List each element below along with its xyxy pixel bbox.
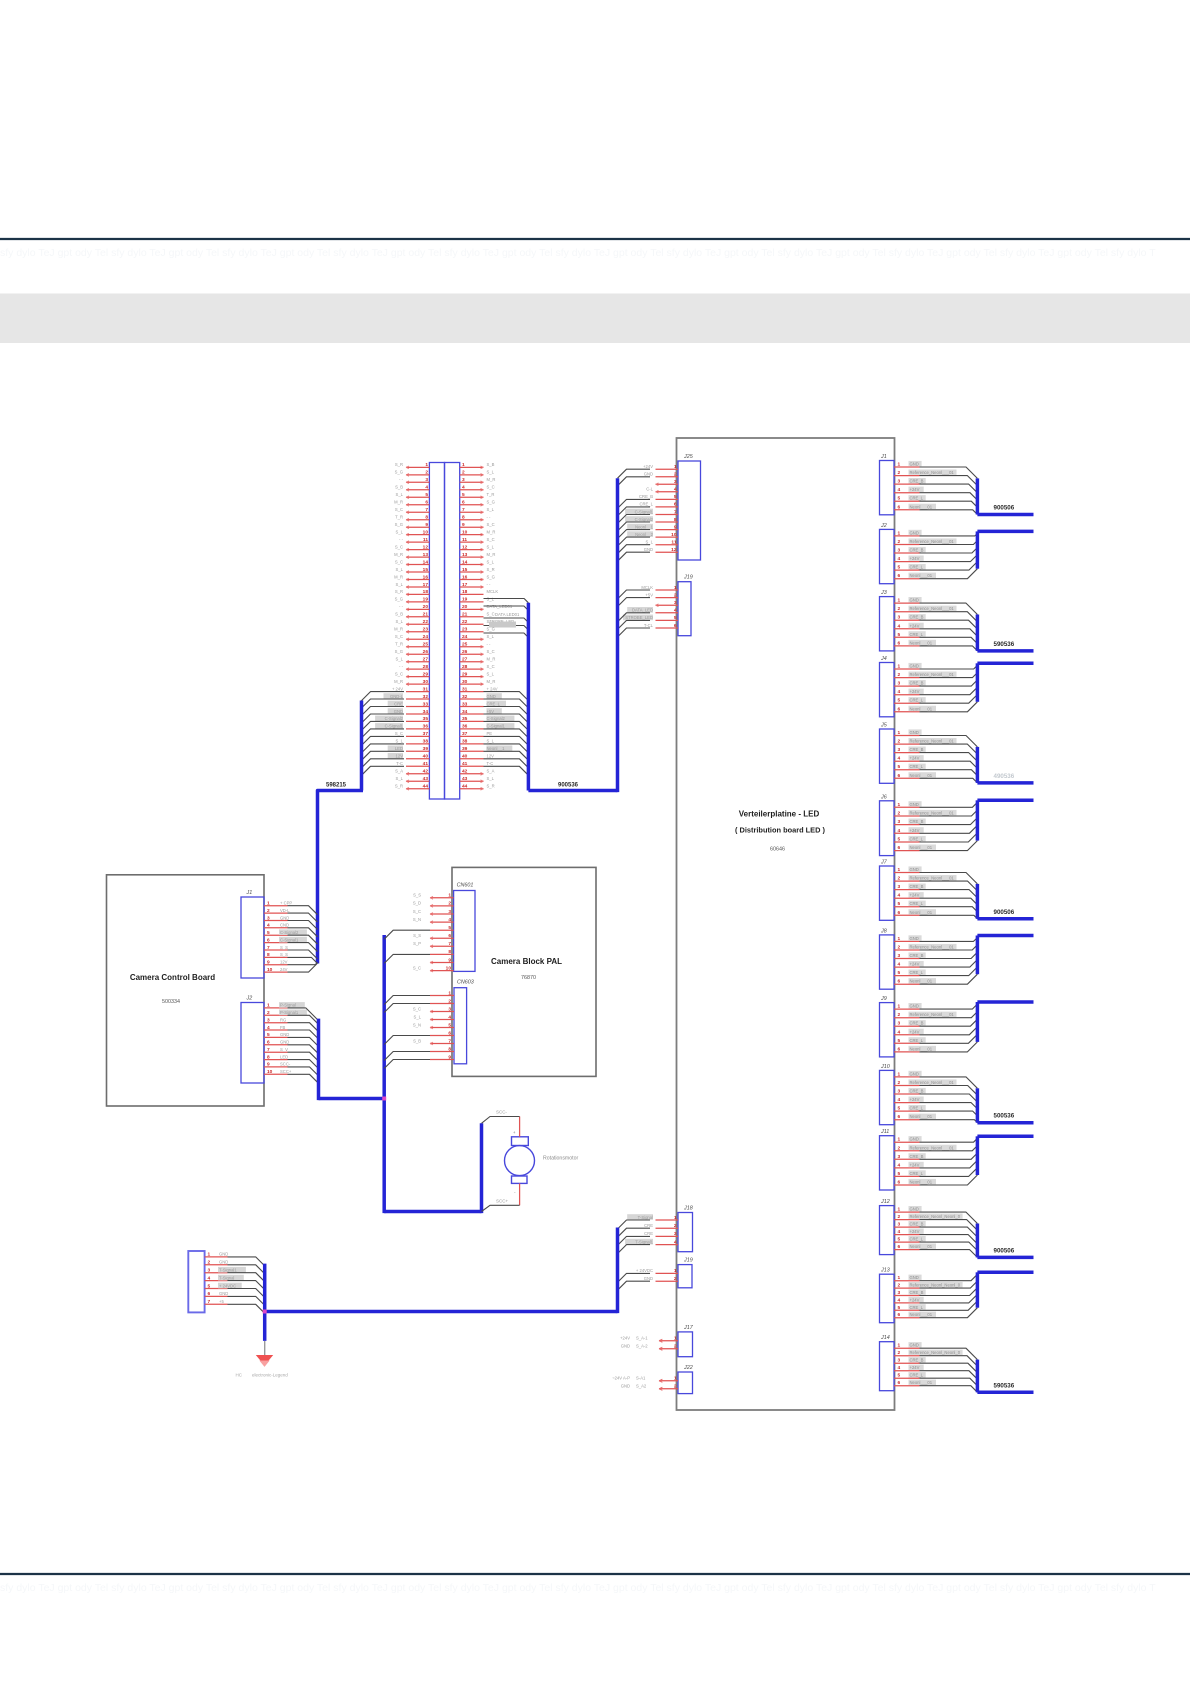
svg-text:T-CL: T-CL	[644, 623, 654, 628]
svg-text:S_D: S_D	[413, 901, 421, 906]
svg-text:Reference_Neonl___01: Reference_Neonl___01	[910, 1012, 955, 1017]
svg-text:3: 3	[898, 1089, 901, 1095]
svg-text:CRE_L: CRE_L	[910, 901, 924, 906]
svg-text:Neonl___01: Neonl___01	[910, 910, 933, 915]
svg-text:S_L: S_L	[487, 559, 495, 564]
svg-text:6: 6	[898, 979, 901, 985]
svg-text:S_B: S_B	[487, 462, 495, 467]
svg-text:S_C: S_C	[395, 559, 403, 564]
svg-text:7: 7	[462, 507, 465, 513]
svg-text:CRE: CRE	[644, 1231, 653, 1236]
connector X1 net labels right	[487, 462, 515, 788]
svg-text:S_C: S_C	[413, 909, 421, 914]
svg-text:S_C: S_C	[395, 634, 403, 639]
svg-text:1: 1	[898, 664, 901, 670]
svg-text:+24V: +24V	[910, 556, 920, 561]
svg-text:1: 1	[674, 585, 677, 591]
svg-text:C-L: C-L	[646, 487, 653, 492]
svg-text:1: 1	[898, 1343, 901, 1349]
svg-text:6: 6	[898, 1312, 901, 1318]
wire bundle J9	[920, 1004, 978, 1052]
svg-text:12V: 12V	[280, 960, 288, 965]
bus wire J11 horizontal	[977, 1135, 1033, 1139]
svg-text:31: 31	[423, 686, 429, 692]
svg-text:GND: GND	[910, 936, 919, 941]
connector J18	[625, 1206, 693, 1252]
bus wire J8 horizontal	[977, 934, 1033, 938]
svg-text:S_C: S_C	[395, 671, 403, 676]
svg-text:12: 12	[423, 544, 429, 550]
svg-text:40: 40	[423, 754, 429, 760]
bus wire J5 horizontal	[977, 781, 1033, 785]
svg-text:+ 24VDC: + 24VDC	[636, 1268, 653, 1273]
svg-text:+24V: +24V	[910, 893, 920, 898]
svg-text:+24V: +24V	[643, 464, 653, 469]
connector J1	[880, 454, 957, 515]
connector X1 left half body	[429, 463, 444, 800]
svg-text:Reference_Neonl___01: Reference_Neonl___01	[910, 539, 955, 544]
svg-text:J14: J14	[880, 1335, 890, 1341]
svg-text:-: -	[514, 1190, 516, 1195]
svg-text:GND: GND	[280, 1032, 289, 1037]
svg-text:CRE_B: CRE_B	[910, 1089, 924, 1094]
svg-text:3: 3	[898, 747, 901, 753]
svg-text:9: 9	[448, 957, 451, 963]
wire bundle J2 CCB	[288, 1008, 319, 1083]
svg-text:4: 4	[898, 1229, 901, 1235]
connector J5	[880, 723, 957, 784]
svg-text:2: 2	[898, 811, 901, 817]
connector J13	[880, 1268, 963, 1323]
bus wire J2 vertical	[976, 531, 980, 568]
svg-text:5: 5	[898, 1038, 901, 1044]
bus wire J5 vertical	[976, 747, 980, 783]
svg-text:SCC-: SCC-	[280, 1062, 291, 1067]
svg-text:2: 2	[898, 1214, 901, 1220]
svg-text:S_S: S_S	[280, 952, 288, 957]
svg-text:S_S: S_S	[413, 893, 421, 898]
svg-text:2: 2	[674, 472, 677, 478]
svg-text:5: 5	[898, 837, 901, 843]
svg-text:1: 1	[674, 1376, 677, 1382]
svg-text:C-Signal2: C-Signal2	[385, 716, 404, 721]
svg-text:Reference_Neonl___01: Reference_Neonl___01	[910, 1080, 955, 1085]
svg-text:CRE_L: CRE_L	[910, 1171, 924, 1176]
svg-text:4: 4	[898, 1162, 901, 1168]
svg-text:CRE_B: CRE_B	[910, 681, 924, 686]
svg-text:+24V: +24V	[910, 756, 920, 761]
svg-text:5: 5	[898, 1171, 901, 1177]
svg-text:6: 6	[208, 1291, 211, 1297]
svg-text:590536: 590536	[994, 1382, 1015, 1389]
svg-text:2: 2	[448, 901, 451, 907]
svg-text:38: 38	[462, 739, 468, 745]
svg-text:CRE_B: CRE_B	[910, 479, 924, 484]
svg-text:2: 2	[898, 1283, 901, 1289]
svg-text:SCC+: SCC+	[280, 1069, 292, 1074]
svg-text:GND: GND	[644, 1276, 653, 1281]
svg-text:19: 19	[462, 597, 468, 603]
svg-text:CND: CND	[280, 923, 289, 928]
svg-text:2: 2	[898, 470, 901, 476]
wire bundle J11	[920, 1138, 978, 1185]
svg-text:34: 34	[423, 709, 429, 715]
svg-text:18: 18	[462, 589, 468, 595]
connector J4	[880, 656, 957, 717]
svg-text:+ 24V: + 24V	[392, 686, 403, 691]
svg-text:sfy dylo TeJ gpt ody Tel sfy d: sfy dylo TeJ gpt ody Tel sfy dylo TeJ gp…	[0, 1582, 1156, 1594]
svg-text:4: 4	[898, 623, 901, 629]
svg-text:1: 1	[674, 1336, 677, 1342]
svg-text:18: 18	[423, 589, 429, 595]
svg-text:8: 8	[425, 515, 428, 521]
svg-text:S_L: S_L	[396, 567, 404, 572]
svg-text:2: 2	[898, 876, 901, 882]
svg-text:36: 36	[462, 724, 468, 730]
svg-text:2: 2	[674, 1276, 677, 1282]
svg-text:S_G: S_G	[395, 470, 403, 475]
svg-text:S_G: S_G	[487, 500, 495, 505]
bus wire motor vertical x481	[480, 1123, 484, 1213]
svg-text:17: 17	[423, 582, 429, 588]
svg-text:9: 9	[462, 522, 465, 528]
motor M1 top brush terminal	[512, 1137, 529, 1146]
svg-text:30: 30	[423, 679, 429, 685]
svg-text:5: 5	[425, 492, 428, 498]
wire bundle X1 right pins 19-23	[484, 599, 529, 638]
svg-text:8: 8	[267, 1054, 270, 1060]
svg-text:+24V: +24V	[910, 623, 920, 628]
svg-text:S_L: S_L	[487, 470, 495, 475]
bus wire J6 vertical	[976, 800, 980, 840]
svg-text:T-Signal: T-Signal	[638, 1215, 653, 1220]
svg-text:+24V: +24V	[910, 689, 920, 694]
svg-text:6: 6	[898, 1114, 901, 1120]
svg-text:5: 5	[674, 494, 677, 500]
wire bundle J4	[920, 665, 978, 712]
svg-text:T-Signal1: T-Signal1	[219, 1268, 237, 1273]
svg-text:9: 9	[267, 1062, 270, 1068]
svg-text:10: 10	[671, 532, 677, 538]
connector J17	[620, 1325, 694, 1357]
svg-text:S_L: S_L	[396, 492, 404, 497]
svg-text:S_R: S_R	[487, 567, 495, 572]
svg-text:S_R: S_R	[487, 784, 495, 789]
bus wire J14 vertical	[976, 1360, 980, 1393]
svg-text:S_N: S_N	[413, 1022, 421, 1027]
svg-text:+24V: +24V	[910, 1097, 920, 1102]
svg-text:S_C: S_C	[487, 612, 495, 617]
bus wire J9 vertical	[976, 1002, 980, 1042]
svg-text:8: 8	[674, 517, 677, 523]
svg-text:+24V: +24V	[910, 1162, 920, 1167]
svg-text:M_R: M_R	[394, 627, 403, 632]
svg-text:3: 3	[267, 1018, 270, 1024]
svg-text:S_L: S_L	[396, 529, 404, 534]
svg-text:1: 1	[674, 1215, 677, 1221]
svg-text:GND: GND	[910, 598, 919, 603]
svg-text:M_R: M_R	[394, 679, 403, 684]
svg-text:8: 8	[267, 952, 270, 958]
svg-text:26: 26	[423, 649, 429, 655]
svg-text:CRE_B: CRE_B	[910, 1290, 924, 1295]
svg-text:J19: J19	[683, 1258, 693, 1264]
svg-text:17: 17	[462, 582, 468, 588]
svg-text:CN601: CN601	[457, 883, 474, 889]
connector J16 bottom-left	[188, 1251, 246, 1312]
junction camera bus	[382, 1097, 386, 1101]
svg-text:9: 9	[448, 1054, 451, 1060]
svg-text:S_R: S_R	[395, 462, 403, 467]
svg-text:6: 6	[898, 773, 901, 779]
svg-text:CRE_L: CRE_L	[910, 970, 924, 975]
svg-text:Reference_Neonl___01: Reference_Neonl___01	[910, 672, 955, 677]
bus wire J12 vertical	[976, 1224, 980, 1258]
connector J25	[625, 454, 700, 560]
svg-text:S_V: S_V	[280, 1047, 288, 1052]
svg-text:16: 16	[462, 574, 468, 580]
svg-text:S_C: S_C	[487, 522, 495, 527]
wire bundle X1 left pins 31-41	[362, 692, 405, 776]
svg-text:1: 1	[208, 1252, 211, 1258]
svg-text:14: 14	[423, 559, 429, 565]
svg-text:S_C: S_C	[395, 731, 403, 736]
bus wire CCB J2 vertical	[317, 1019, 321, 1101]
svg-text:+5: +5	[219, 1299, 224, 1304]
svg-text:S_L: S_L	[646, 540, 654, 545]
svg-text:11: 11	[423, 537, 428, 543]
svg-text:3: 3	[448, 909, 451, 915]
svg-text:1: 1	[898, 867, 901, 873]
svg-text:10: 10	[267, 1069, 273, 1075]
svg-text:CRE_B: CRE_B	[910, 1358, 924, 1363]
svg-text:S_C: S_C	[395, 544, 403, 549]
motor M1 top lead	[519, 1117, 521, 1137]
svg-text:4: 4	[898, 962, 901, 968]
connector X1 pin stubs right (1-44)	[460, 466, 484, 790]
connector J19	[623, 575, 693, 636]
connector J2 (Camera Control Board)	[241, 996, 307, 1084]
svg-text:43: 43	[462, 776, 468, 782]
svg-text:6: 6	[898, 1244, 901, 1250]
svg-text:590536: 590536	[994, 641, 1015, 648]
svg-text:4: 4	[898, 1365, 901, 1371]
svg-text:J10: J10	[880, 1064, 890, 1070]
svg-text:J2: J2	[880, 523, 887, 529]
svg-text:6: 6	[267, 1040, 270, 1046]
svg-text:LED: LED	[280, 1054, 288, 1059]
bus wire J14 horizontal	[977, 1391, 1033, 1395]
bus wire J1 horizontal	[977, 513, 1033, 517]
svg-text:29: 29	[462, 671, 468, 677]
svg-text:3: 3	[674, 600, 677, 606]
svg-text:CRE_L: CRE_L	[910, 1106, 924, 1111]
wire bundle J12	[920, 1212, 978, 1257]
connector X1 pin numbers left 1-44	[423, 462, 429, 789]
svg-text:6: 6	[674, 502, 677, 508]
svg-text:5: 5	[898, 1305, 901, 1311]
wire bundle J5	[920, 736, 978, 783]
svg-text:5: 5	[898, 1106, 901, 1112]
svg-text:21: 21	[423, 612, 429, 618]
svg-text:GND: GND	[219, 1291, 228, 1296]
svg-text:C-Signal2: C-Signal2	[280, 930, 299, 935]
svg-text:3: 3	[674, 1231, 677, 1237]
wire bundle J10	[920, 1077, 978, 1123]
connector J19	[636, 1258, 693, 1288]
svg-text:T_R: T_R	[487, 492, 495, 497]
svg-text:3: 3	[267, 915, 270, 921]
svg-text:+24V: +24V	[910, 828, 920, 833]
svg-text:C-Signal1: C-Signal1	[635, 509, 654, 514]
svg-text:GND: GND	[394, 709, 403, 714]
svg-text:27: 27	[423, 657, 429, 663]
svg-text:1: 1	[898, 1137, 901, 1143]
svg-text:2: 2	[898, 739, 901, 745]
svg-text:3: 3	[674, 479, 677, 485]
svg-text:5: 5	[462, 492, 465, 498]
svg-text:CRE_L: CRE_L	[910, 1305, 924, 1310]
svg-text:34: 34	[462, 709, 468, 715]
svg-text:39: 39	[423, 746, 429, 752]
svg-text:C-Signal1: C-Signal1	[385, 724, 404, 729]
svg-text:3: 3	[898, 1290, 901, 1296]
svg-text:T-C: T-C	[396, 761, 403, 766]
svg-text:7: 7	[267, 1047, 270, 1053]
svg-text:S_G: S_G	[395, 649, 403, 654]
svg-text:J11: J11	[880, 1129, 889, 1135]
svg-text:LED: LED	[395, 746, 403, 751]
svg-text:CN603: CN603	[457, 980, 474, 986]
bus wire camera block vertical x384	[382, 935, 386, 1213]
svg-text:6: 6	[898, 1180, 901, 1186]
bus wire J4 horizontal	[977, 662, 1033, 666]
svg-text:6: 6	[898, 845, 901, 851]
svg-text:P-Signal1: P-Signal1	[280, 1010, 299, 1015]
svg-text:J18: J18	[683, 1206, 693, 1212]
svg-text:Reference_Neonl___01: Reference_Neonl___01	[910, 606, 955, 611]
svg-text:S_C: S_C	[413, 965, 421, 970]
svg-text:3: 3	[898, 548, 901, 554]
svg-text:4: 4	[425, 485, 428, 491]
svg-text:11: 11	[462, 537, 467, 543]
svg-text:J2: J2	[246, 996, 253, 1002]
svg-text:S_L: S_L	[487, 507, 495, 512]
svg-text:1: 1	[898, 598, 901, 604]
bus wire J13 horizontal	[977, 1271, 1033, 1275]
svg-text:2: 2	[674, 1384, 677, 1390]
svg-text:Neonl__1: Neonl__1	[635, 524, 654, 529]
svg-text:42: 42	[462, 769, 468, 775]
svg-text:5: 5	[208, 1283, 211, 1289]
svg-text:6: 6	[674, 623, 677, 629]
connector J2	[880, 523, 957, 584]
svg-text:1: 1	[898, 802, 901, 808]
svg-text:6: 6	[898, 1380, 901, 1386]
svg-text:+24V: +24V	[910, 1029, 920, 1034]
svg-text:J3: J3	[880, 590, 887, 596]
svg-text:CRE_B: CRE_B	[910, 1222, 924, 1227]
svg-text:6: 6	[448, 1030, 451, 1036]
svg-text:M_R: M_R	[487, 529, 496, 534]
svg-text:S_B: S_B	[395, 612, 403, 617]
svg-text:S_G: S_G	[395, 522, 403, 527]
svg-text:3: 3	[462, 477, 465, 483]
svg-text:5: 5	[898, 565, 901, 571]
svg-text:+24V: +24V	[910, 487, 920, 492]
connector J9	[880, 996, 957, 1057]
svg-text:GND: GND	[910, 1275, 919, 1280]
svg-text:RG: RG	[280, 1018, 286, 1023]
svg-text:DATA LED01: DATA LED01	[495, 612, 520, 617]
svg-text:J5: J5	[880, 723, 888, 729]
wire bundle J8	[920, 938, 978, 985]
junction ground bus	[263, 1310, 267, 1314]
ground symbol	[256, 1355, 273, 1366]
svg-text:1: 1	[898, 1207, 901, 1213]
svg-text:10: 10	[462, 529, 468, 535]
bottom rule	[0, 1573, 1190, 1575]
wire bundle J6	[920, 802, 978, 850]
svg-text:23: 23	[423, 627, 429, 633]
svg-text:GND: GND	[910, 802, 919, 807]
svg-text:GND: GND	[910, 730, 919, 735]
svg-text:FB: FB	[280, 1025, 286, 1030]
svg-text:J19: J19	[683, 575, 693, 581]
svg-text:4: 4	[448, 1014, 451, 1020]
bus wire J7 horizontal	[977, 917, 1033, 921]
svg-text:32: 32	[423, 694, 429, 700]
svg-text:S_L: S_L	[396, 657, 404, 662]
svg-text:5: 5	[898, 970, 901, 976]
svg-text:9: 9	[267, 960, 270, 966]
svg-text:3: 3	[898, 479, 901, 485]
svg-text:Reference_Neonl_Neonl_0: Reference_Neonl_Neonl_0	[910, 1350, 961, 1355]
svg-text:CRE_L: CRE_L	[910, 698, 924, 703]
svg-text:S_B: S_B	[413, 1038, 421, 1043]
svg-text:2: 2	[425, 470, 428, 476]
svg-text:36: 36	[423, 724, 429, 730]
svg-text:Neonl___01: Neonl___01	[910, 1312, 933, 1317]
wire SCC+ to motor	[482, 1205, 520, 1211]
svg-text:6: 6	[898, 504, 901, 510]
svg-text:Neonl___01: Neonl___01	[910, 1244, 933, 1249]
svg-text:Neonl___01: Neonl___01	[910, 773, 933, 778]
svg-text:5: 5	[898, 901, 901, 907]
bus wire CCB J2 horizontal y1098	[319, 1097, 385, 1101]
svg-text:14: 14	[462, 559, 468, 565]
svg-text:GND: GND	[487, 694, 496, 699]
svg-text:T_R: T_R	[395, 515, 403, 520]
svg-text:GND: GND	[910, 1137, 919, 1142]
svg-text:6: 6	[448, 933, 451, 939]
svg-text:GND: GND	[910, 1004, 919, 1009]
svg-text:J9: J9	[880, 996, 887, 1002]
svg-text:T-C: T-C	[487, 761, 494, 766]
svg-text:GND: GND	[910, 1207, 919, 1212]
bus wire J13 vertical	[976, 1272, 980, 1307]
svg-text:Neonl___01: Neonl___01	[910, 640, 933, 645]
svg-text:CRE_B: CRE_B	[910, 1154, 924, 1159]
svg-text:3: 3	[898, 819, 901, 825]
svg-text:2: 2	[898, 539, 901, 545]
svg-text:S_B: S_B	[395, 485, 403, 490]
svg-text:4: 4	[674, 1239, 677, 1245]
svg-text:Camera Control Board: Camera Control Board	[130, 973, 215, 982]
svg-text:GND: GND	[280, 1040, 289, 1045]
svg-text:2: 2	[462, 470, 465, 476]
svg-text:2: 2	[674, 1223, 677, 1229]
